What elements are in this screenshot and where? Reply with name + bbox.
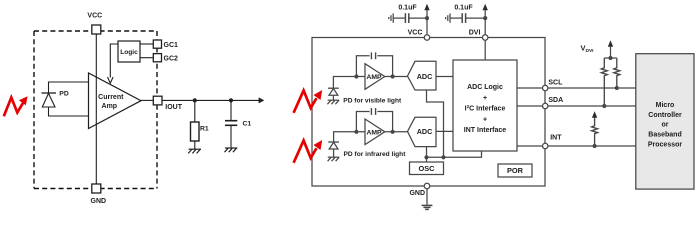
wire amp apex to IOUT pin	[141, 99, 153, 101]
svg-text:GC1: GC1	[164, 42, 179, 49]
svg-text:Processor: Processor	[648, 141, 683, 148]
wire ADC1 to ADC logic	[436, 76, 453, 78]
pin SCL	[543, 85, 548, 90]
node VCC tap	[425, 16, 429, 20]
ground below R1	[188, 149, 201, 153]
pin GC2	[153, 54, 161, 62]
ground PD2	[328, 156, 340, 158]
wire DVI pin into ADC logic	[484, 40, 486, 60]
svg-text:Current: Current	[98, 94, 124, 101]
svg-text:0.1uF: 0.1uF	[454, 4, 473, 11]
POR block	[498, 164, 532, 177]
wire PD2 to AMP2	[334, 132, 365, 142]
svg-text:INT: INT	[550, 135, 562, 142]
photodiode PD1	[328, 87, 339, 89]
wire rail to OSC	[426, 157, 428, 162]
wire SCL	[517, 87, 543, 89]
svg-text:Logic: Logic	[120, 49, 138, 56]
svg-text:PD for visible light: PD for visible light	[343, 97, 402, 104]
logic block	[118, 41, 140, 62]
svg-text:AMP: AMP	[366, 74, 382, 81]
svg-text:Controller: Controller	[648, 112, 682, 119]
light arrow red 1 (visible)	[294, 91, 317, 113]
op-amp triangle Current Amp	[89, 73, 142, 129]
svg-text:I2C Interface: I2C Interface	[465, 104, 506, 113]
ground PD1	[328, 99, 340, 101]
wire GND pin to earth	[426, 189, 428, 205]
pin DVI (top)	[483, 35, 488, 40]
pin GND	[92, 184, 101, 193]
wire VCC to GND vertical	[95, 34, 97, 184]
svg-text:ADC Logic: ADC Logic	[467, 84, 503, 91]
feedback loop with capacitor	[356, 56, 369, 77]
pin GC1	[153, 40, 161, 48]
pin IOUT	[153, 96, 162, 105]
wire logic to amp arrow	[110, 44, 118, 78]
svg-text:IOUT: IOUT	[165, 104, 182, 111]
svg-text:0.1uF: 0.1uF	[398, 4, 417, 11]
node C1 junction	[229, 98, 233, 102]
wire gnd-cap	[393, 17, 405, 19]
0.1uF cap circuit for VCC	[389, 10, 429, 35]
node DVI tap	[483, 16, 487, 20]
pin VCC	[92, 25, 101, 34]
OSC block	[410, 162, 444, 175]
wire C1 to ground	[230, 126, 232, 148]
ADC logic block U1	[453, 60, 517, 151]
svg-text:GND: GND	[91, 198, 107, 205]
output arrowhead	[259, 97, 265, 103]
row 1: visible light channel	[327, 52, 453, 157]
resistor R1	[191, 122, 200, 141]
svg-text:POR: POR	[507, 166, 524, 175]
svg-text:Amp: Amp	[102, 103, 118, 110]
0.1uF cap circuit for DVI	[446, 10, 488, 35]
dashed IC boundary box	[34, 31, 157, 189]
supply line with arrow	[426, 10, 428, 35]
feedback loop with capacitor	[356, 112, 369, 132]
wire AMP2 to ADC2	[385, 131, 408, 133]
svg-text:PD for infrared light: PD for infrared light	[344, 151, 407, 158]
node R1 junction	[193, 98, 197, 102]
light arrow red (left diagram)	[4, 98, 23, 117]
svg-text:ADC: ADC	[417, 127, 433, 136]
wire IOUT to output arrow	[162, 99, 260, 101]
photodiode PD symbol	[42, 92, 57, 94]
svg-text:OSC: OSC	[418, 164, 435, 173]
earth ground symbol	[422, 205, 433, 209]
big IC box	[312, 38, 545, 187]
wire ADC2 to ADC logic	[436, 130, 453, 132]
wire logic to GC2	[140, 57, 153, 59]
svg-text:VDVI: VDVI	[581, 44, 595, 55]
wire INT	[517, 145, 543, 147]
svg-text:+: +	[483, 116, 487, 123]
capacitor 0.1uF plates	[404, 13, 406, 23]
ADC2 block	[408, 117, 437, 146]
wire to R1	[194, 100, 196, 122]
osc rail wire	[427, 151, 482, 158]
wire ADC1 down to osc rail	[427, 90, 444, 157]
photodiode PD loop wires	[49, 82, 89, 93]
svg-text:Micro: Micro	[656, 102, 675, 109]
supply arrow stem	[610, 46, 612, 58]
micro controller block	[636, 54, 694, 189]
op-amp AMP1	[365, 64, 385, 90]
ground below C1	[225, 148, 238, 152]
wire SDA	[517, 105, 543, 107]
svg-text:VCC: VCC	[87, 13, 102, 20]
photodiode PD2	[328, 141, 339, 143]
wire AMP1 to ADC1	[385, 76, 408, 78]
pull-up network SCL/SDA	[601, 46, 620, 108]
resistor left branch	[601, 58, 607, 106]
pin INT	[543, 143, 548, 148]
svg-text:PD: PD	[59, 90, 69, 97]
ground (rotated)	[392, 13, 394, 22]
svg-text:INT Interface: INT Interface	[464, 127, 507, 134]
wire logic to GC1	[140, 43, 153, 45]
svg-text:SDA: SDA	[548, 97, 563, 104]
svg-text:DVI: DVI	[469, 29, 481, 36]
ADC1 block	[408, 61, 437, 90]
op-amp AMP2	[365, 119, 385, 145]
svg-text:AMP: AMP	[366, 130, 382, 137]
light arrow red 2 (infrared)	[294, 141, 317, 163]
wire cap-node	[409, 17, 427, 19]
svg-text:ADC: ADC	[417, 72, 433, 81]
svg-text:+: +	[483, 95, 487, 102]
supply arrowheads	[424, 4, 429, 10]
svg-text:GND: GND	[409, 190, 425, 197]
svg-text:VCC: VCC	[408, 29, 423, 36]
wire R1 to ground	[194, 141, 196, 149]
capacitor C1	[225, 120, 237, 122]
pin GND (bottom)	[424, 183, 430, 189]
pin VCC (top)	[424, 35, 429, 40]
pin SDA	[543, 103, 548, 108]
svg-text:SCL: SCL	[548, 79, 563, 86]
pull-up resistor INT	[592, 118, 598, 149]
svg-text:C1: C1	[243, 120, 252, 127]
svg-text:Baseband: Baseband	[648, 132, 681, 139]
svg-text:GC2: GC2	[164, 56, 179, 63]
row 2: infrared channel	[328, 108, 453, 161]
arrowhead open logic->amp	[108, 77, 114, 83]
wire ADC2 down to osc rail	[426, 147, 428, 158]
wire to C1	[230, 100, 232, 120]
T bar	[604, 57, 617, 59]
svg-text:R1: R1	[200, 125, 209, 132]
svg-text:or: or	[662, 121, 669, 128]
wire PD1 to AMP1	[333, 77, 365, 89]
resistor right branch	[614, 58, 620, 88]
